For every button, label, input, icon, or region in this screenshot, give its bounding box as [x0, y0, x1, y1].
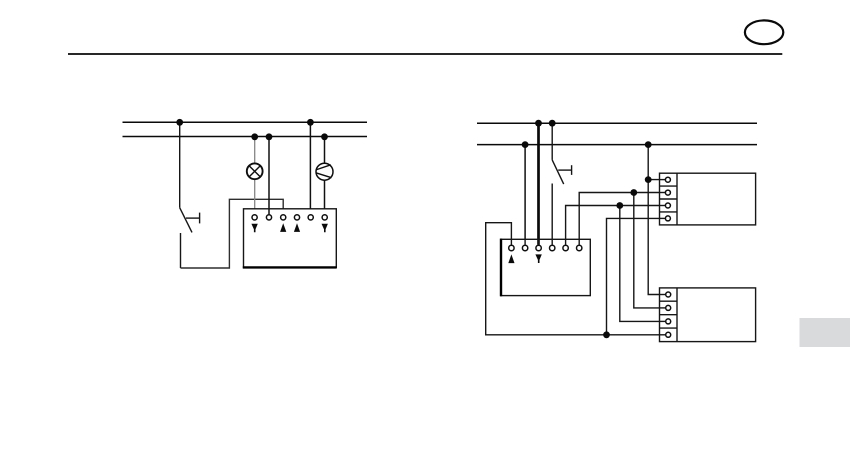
wire: upper actuator terminal 4 to bottom wire: [607, 218, 669, 334]
actuator module B1 (upper right): [660, 173, 756, 225]
node: L bus / terminal 5 junction: [307, 119, 314, 126]
terminal 5 (A1): [308, 215, 313, 220]
arrow up (A1 terminal 3): [280, 223, 286, 232]
node: upper actuator terminal 2 branch: [630, 189, 637, 196]
control unit A2 (right): [501, 239, 591, 297]
actuator module B2 (lower right): [660, 288, 756, 342]
wire stubs into B1 terminal cells: [660, 180, 668, 219]
terminal 1 (B2): [666, 292, 671, 297]
wire: N bus to terminal 2: [524, 145, 526, 245]
node: upper actuator terminal 3 branch: [616, 202, 623, 209]
terminal 3 (A2): [536, 245, 541, 250]
wire stubs into A2 terminals: [511, 239, 579, 245]
node: N bus / terminal 2 junction: [266, 133, 273, 140]
wire: N bus (left diagram): [123, 136, 368, 138]
wire: L bus to terminal 5: [309, 122, 311, 209]
terminal 3 (B2): [666, 319, 671, 324]
wire: branch down to lower actuator terminal 3: [620, 206, 668, 322]
arrow down (A1 terminal 1): [251, 224, 257, 233]
switch S2 feed wire: [551, 123, 553, 160]
wire: N bus to upper actuator terminal 1 and lower actuator terminal 1: [648, 145, 668, 295]
wire: terminal 6 to upper actuator terminal 2: [579, 193, 668, 245]
terminal 2 (A2): [522, 245, 527, 250]
wire: L bus (left diagram): [123, 121, 368, 123]
lamp E1: [247, 163, 263, 179]
switch S2 (push-button): [552, 160, 571, 245]
node: L bus / switch junction: [549, 120, 556, 127]
wire: N bus to terminal 2: [268, 137, 270, 215]
wire: switch to control unit terminal 3: [181, 199, 284, 268]
wire: terminal 1 loop to lower actuator terminal 4: [486, 223, 668, 335]
wire: N bus to lamp to terminal 1: [254, 137, 256, 210]
terminal 1 (B1): [665, 177, 670, 182]
terminal 4 (A1): [294, 215, 299, 220]
arrow down (A2 terminal 3): [535, 254, 541, 263]
node: N bus / lamp junction: [251, 133, 258, 140]
wire: N bus to fan to terminal 6: [324, 137, 326, 210]
terminal 4 (B2): [666, 332, 671, 337]
wire: branch down to lower actuator terminal 2: [634, 193, 668, 308]
terminal 3 (A1): [281, 215, 286, 220]
terminal 2 (B2): [666, 305, 671, 310]
wire: branch to upper actuator terminal 1: [648, 179, 668, 181]
terminal 2 (A1): [266, 215, 271, 220]
node: N bus / actuator feed junction: [645, 141, 652, 148]
fan M1: [316, 163, 333, 180]
terminal 1 (A1): [252, 215, 257, 220]
header rule: [68, 53, 782, 55]
node: L bus / switch junction: [176, 119, 183, 126]
node: L bus / thick wire junction: [535, 120, 542, 127]
terminal 5 (A2): [563, 245, 568, 250]
terminal 6 (A2): [577, 245, 582, 250]
wire: N bus (right diagram): [477, 144, 757, 146]
terminal 4 (A2): [550, 245, 555, 250]
wire stubs into B2 terminal cells: [660, 295, 669, 335]
wire: L bus (right diagram): [477, 122, 757, 124]
switch S1 feed wire: [179, 122, 181, 207]
wire: L bus to terminal 3 (thick): [537, 123, 540, 245]
switch S1 (push-button): [180, 208, 200, 268]
page tab marker: [800, 318, 850, 347]
arrow down (A1 terminal 6): [322, 224, 328, 233]
control unit A1 (left): [243, 209, 337, 268]
arrow up (A2 terminal 1): [508, 254, 514, 263]
terminal 6 (A1): [322, 215, 327, 220]
node: N bus / fan junction: [321, 133, 328, 140]
terminal 2 (B1): [665, 190, 670, 195]
node: upper actuator terminal 1 branch: [645, 176, 652, 183]
terminal 4 (B1): [665, 216, 670, 221]
wire: terminal 5 to upper actuator terminal 3: [566, 206, 668, 245]
arrow up (A1 terminal 4): [294, 223, 300, 232]
wire stub: N wire into A1 to terminal 2: [268, 209, 270, 214]
page number ellipse: [745, 20, 783, 44]
node: bottom wire junction: [603, 331, 610, 338]
terminal 3 (B1): [665, 203, 670, 208]
node: N bus / terminal 2 junction: [522, 141, 529, 148]
terminal 1 (A2): [509, 245, 514, 250]
